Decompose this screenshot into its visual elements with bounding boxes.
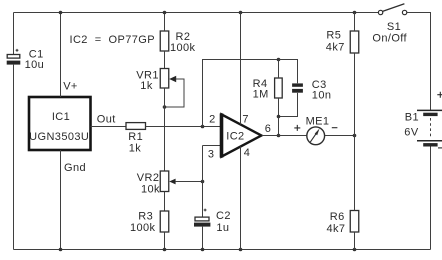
junction VR2 wiper node — [201, 180, 205, 184]
svg-text:100k: 100k — [170, 42, 196, 54]
wire R6 bottom lead — [354, 232, 356, 250]
wire node to R6 top — [354, 136, 356, 211]
svg-text:10u: 10u — [25, 59, 45, 71]
svg-text:7: 7 — [242, 113, 249, 125]
resistor R2 — [160, 31, 169, 51]
svg-text:V+: V+ — [63, 81, 78, 93]
svg-text:4k7: 4k7 — [327, 223, 346, 235]
junction ground rail pin4 — [239, 248, 243, 252]
resistor R3 — [160, 211, 169, 232]
wire R2 to VR1 — [164, 51, 166, 69]
svg-text:R5: R5 — [326, 29, 341, 41]
junction R3 ground — [163, 248, 167, 252]
svg-text:S1: S1 — [387, 21, 401, 33]
label B1 value — [404, 112, 419, 139]
resistor R6 — [350, 211, 359, 233]
wire pin 4 ground — [240, 146, 242, 249]
wire R5 bottom to node — [354, 53, 356, 136]
wire Gnd lead of IC1 — [60, 150, 62, 250]
svg-text:10n: 10n — [312, 89, 332, 101]
junction ground rail R6 — [353, 248, 357, 252]
meter ME1 — [307, 127, 325, 145]
wire left rail down to C1 — [13, 13, 15, 55]
wire pin 7 supply — [240, 13, 242, 125]
svg-text:1u: 1u — [216, 222, 229, 234]
capacitor C3 — [292, 83, 303, 92]
label R4 value — [253, 78, 269, 101]
capacitor C1 — [7, 49, 21, 65]
wire R5 top lead — [354, 13, 356, 32]
wire feedback down to output — [278, 117, 280, 136]
svg-text:Out: Out — [97, 114, 116, 126]
wire VR2 to R3 — [164, 192, 166, 212]
wire switch to battery top — [407, 13, 431, 111]
label R2 value — [170, 31, 196, 54]
svg-text:1M: 1M — [253, 88, 269, 100]
wire Out lead of IC1 — [91, 126, 127, 128]
wire R4 top lead — [278, 60, 280, 79]
label VR2 value — [137, 172, 160, 196]
label battery plus — [437, 92, 442, 98]
junction top rail R5 — [353, 11, 357, 15]
wire R1 to inverting input pin 2 — [146, 126, 221, 128]
junction top rail IC1 — [59, 11, 63, 15]
junction top rail pin7 — [239, 11, 243, 15]
svg-text:IC2: IC2 — [226, 130, 244, 142]
label R1 value — [128, 131, 143, 155]
wire R4 bottom lead — [278, 98, 280, 117]
junction top rail R2 — [163, 11, 167, 15]
wire VR1 wiper return — [165, 79, 185, 107]
potentiometer VR2 — [160, 171, 175, 192]
junction output node — [277, 134, 281, 138]
op-amp IC2 — [222, 113, 262, 157]
wire R2 top lead — [164, 13, 166, 32]
label C2 value — [216, 210, 231, 234]
wire VR1 to VR2 — [164, 88, 166, 171]
label R5 value — [326, 29, 345, 53]
svg-text:On/Off: On/Off — [372, 32, 407, 44]
svg-text:VR2: VR2 — [137, 172, 160, 184]
battery B1 — [417, 110, 442, 146]
label meter minus — [332, 127, 338, 129]
switch S1 — [378, 4, 406, 15]
wire top V+ rail — [14, 12, 379, 14]
wire feedback net — [203, 60, 279, 127]
junction feedback bottom — [277, 115, 281, 119]
junction C2 ground — [201, 248, 205, 252]
svg-text:10k: 10k — [141, 183, 160, 195]
svg-text:R3: R3 — [138, 210, 153, 222]
label C1 value — [25, 49, 45, 72]
svg-text:6: 6 — [265, 123, 272, 135]
label VR1 value — [136, 69, 159, 92]
svg-text:IC1: IC1 — [52, 111, 70, 123]
IC1 UGN3503U hall sensor — [29, 97, 91, 150]
wire C3 bottom to feedback bottom — [279, 93, 298, 117]
resistor R1 — [126, 123, 146, 130]
svg-text:C2: C2 — [216, 210, 231, 222]
svg-text:UGN3503U: UGN3503U — [29, 131, 89, 143]
junction feedback top R4 — [277, 58, 281, 62]
svg-text:ME1: ME1 — [306, 115, 330, 127]
resistor R5 — [350, 31, 359, 53]
label S1 On/Off — [372, 21, 407, 44]
wire V+ lead of IC1 — [60, 13, 62, 98]
svg-text:3: 3 — [208, 149, 215, 161]
wire output to meter — [262, 135, 307, 137]
label R3 value — [130, 210, 156, 233]
wire pin 3 horizontal — [203, 145, 221, 147]
svg-text:R6: R6 — [330, 211, 345, 223]
svg-text:B1: B1 — [405, 112, 419, 124]
capacitor C2 — [194, 209, 210, 227]
label R6 value — [327, 211, 346, 235]
label meter plus — [294, 125, 300, 131]
svg-text:2: 2 — [209, 113, 216, 125]
wire non-inverting input net vertical — [202, 146, 204, 218]
svg-text:1k: 1k — [140, 80, 153, 92]
junction feedback tap on pin2 wire — [201, 125, 205, 129]
junction ground rail IC1 — [59, 248, 63, 252]
wire R3 bottom lead — [164, 232, 166, 250]
potentiometer VR1 — [160, 69, 176, 89]
wire feedback to C3 top — [279, 60, 298, 84]
wire C2 bottom lead — [202, 227, 204, 250]
wire C1 to ground rail — [13, 65, 15, 250]
svg-text:Gnd: Gnd — [64, 162, 86, 174]
wire battery to ground rail — [430, 147, 432, 250]
junction VR1 wiper node — [163, 105, 167, 109]
svg-text:1k: 1k — [129, 143, 142, 155]
junction meter R5 R6 — [353, 134, 357, 138]
svg-text:4k7: 4k7 — [326, 41, 345, 53]
svg-text:4: 4 — [244, 147, 251, 159]
svg-text:100k: 100k — [130, 222, 156, 234]
resistor R4 — [275, 78, 283, 98]
label C3 value — [312, 79, 332, 101]
svg-text:6V: 6V — [404, 127, 419, 139]
svg-text:IC2 = OP77GP: IC2 = OP77GP — [70, 34, 155, 46]
wire bottom ground rail — [14, 249, 431, 251]
wire meter to R5/R6 node — [325, 135, 355, 137]
label battery minus — [438, 147, 442, 149]
svg-text:R1: R1 — [128, 131, 143, 143]
wire VR2 wiper to non-inverting net — [175, 181, 202, 183]
